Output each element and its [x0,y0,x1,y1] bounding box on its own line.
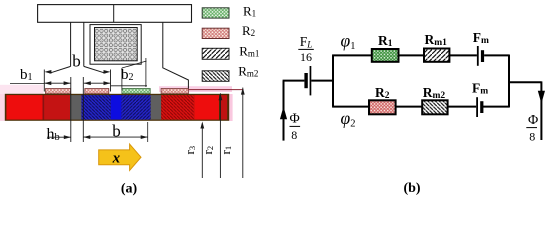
svg-text:R1: R1 [378,33,393,49]
svg-text:8: 8 [529,130,535,144]
right limb inner edge [163,22,189,89]
r3 arrow [200,122,204,129]
pink backing band left of airgap [0,85,43,95]
wire: Rm2 to Fm bottom [448,106,477,108]
bottom b arrow right [141,135,148,139]
bottom b arrow left [83,135,90,139]
magnet red 2 [44,95,70,120]
pink backing band right of airgap [159,86,232,92]
x direction arrow [99,144,141,170]
wire: battery to junction [311,80,333,82]
svg-text:Φ: Φ [528,113,538,128]
yoke divider [113,5,115,23]
wire: left input vertical [283,81,285,141]
svg-text:Rm2: Rm2 [238,64,258,79]
svg-text:16: 16 [300,50,312,64]
spacer gray 2 [151,95,162,120]
svg-text:Rm1: Rm1 [239,43,259,58]
svg-text:x: x [112,151,121,167]
stator yoke [38,5,192,23]
bottom b dimension line [83,136,147,138]
left tooth left edge [70,22,72,66]
dimension b extension line right [110,70,112,92]
battery Fm top: long thin bar [477,46,479,66]
svg-text:R1: R1 [243,3,256,18]
airgap reluctance region R2 (mid) [85,89,109,94]
dimension b1 line [44,82,70,84]
wire: Fm top to right corner [484,54,509,56]
hb dimension line [47,136,71,138]
r3 dimension line [201,124,203,179]
airgap reluctance region R2 (right) [161,89,188,94]
resistor Rm1 box [424,49,449,62]
coil outer box [90,25,141,65]
left tooth right edge [83,22,85,66]
flux output arrow (right, down) [538,91,545,104]
svg-text:φ2: φ2 [341,108,356,130]
wire: R2 to Rm2 [396,106,423,108]
svg-text:b: b [112,122,121,141]
svg-text:hb: hb [47,126,60,143]
legend swatch Rm1 [202,48,229,59]
dimension b2 extension line [121,68,123,90]
coil winding (dots) [95,28,138,61]
wire: right junction vertical [508,55,510,108]
svg-text:Fm: Fm [473,30,489,46]
b1 arrow left [44,81,51,85]
svg-text:Φ: Φ [290,112,300,127]
pink backing strip left end [0,94,5,121]
hb extension line right / b bottom left ext [82,77,84,142]
airgap reluctance region R2 (left) [46,89,71,94]
r2 dimension line [219,93,221,178]
svg-text:FL: FL [300,34,313,50]
svg-text:(a): (a) [121,182,138,197]
left pole flare [50,66,71,73]
svg-text:Rm1: Rm1 [425,32,448,48]
svg-text:b: b [72,52,81,71]
r2 arrow [219,93,223,100]
r1 dimension line [242,88,244,178]
wire: right output horizontal [509,81,541,83]
wire: right output vertical [540,81,542,140]
svg-text:Rm2: Rm2 [423,85,446,101]
b1 leader underline [10,82,44,84]
resistor R1 box [372,49,399,62]
svg-text:b2: b2 [121,67,134,83]
battery FL/16 : short thick bar [304,73,307,88]
svg-text:(b): (b) [403,181,420,196]
wire: Rm1 to Fm top [449,54,477,56]
pink backing strip right end [229,94,233,121]
svg-text:Fm: Fm [472,80,488,96]
svg-text:R2: R2 [242,23,255,38]
svg-text:φ1: φ1 [341,31,356,53]
magnet red 1 [6,95,42,120]
magnet red 3 [194,95,219,120]
magnet blue hatched 2 (Rm) [122,95,151,120]
slot arrow left [84,81,91,85]
magnet blue solid [111,95,122,120]
b arrow left [44,70,51,74]
battery Fm top: short thick bar [481,50,484,62]
battery Fm bottom: short thick bar [480,101,483,113]
right pole flare [84,66,106,73]
b2 leader underline [111,85,147,87]
dimension slot line [84,82,111,84]
spacer gray 1 [70,95,81,120]
wire: top branch to R1 [332,54,372,56]
legend swatch R1 [202,8,229,18]
resistor Rm2 box [422,100,447,114]
hb arrow [64,135,71,139]
r1 arrow [241,88,245,95]
magnet divider [43,95,45,120]
resistor R2 box [369,100,396,114]
battery Fm bottom: long thin bar [476,97,478,117]
legend swatch R2 [202,28,229,38]
magnet blue hatched 1 (Rm) [81,95,110,120]
svg-text:r3: r3 [182,146,197,155]
bottom b ext right [147,122,149,142]
wire: R1 to Rm1 [399,54,425,56]
slot arrow right [104,81,111,85]
wire: junction vertical [332,55,334,106]
svg-text:b1: b1 [20,67,33,83]
airgap reluctance region R1 (green) [122,89,150,94]
flux input arrow (left, up) [280,107,287,120]
hb extension line left [70,77,72,142]
svg-text:R2: R2 [375,85,390,101]
wire: bottom branch to R2 [332,106,369,108]
magnet red 4 [221,95,228,120]
magnet array strip border [5,94,229,121]
b1 arrow right [64,81,71,85]
b arrow right [104,70,111,74]
svg-text:8: 8 [291,128,297,142]
wire: Fm bottom to right corner [482,106,509,108]
wire: left horizontal to battery [283,80,305,82]
extension line mid right [145,58,147,87]
b2 leader diagonal [122,61,147,68]
airgap top line right (to r1 arrow) [188,89,243,91]
magnet red hatched (Rm) [161,95,194,120]
legend swatch Rm2 [202,71,229,82]
dimension b extension line left [43,70,45,92]
battery FL/16 : long thin bar [310,66,312,95]
